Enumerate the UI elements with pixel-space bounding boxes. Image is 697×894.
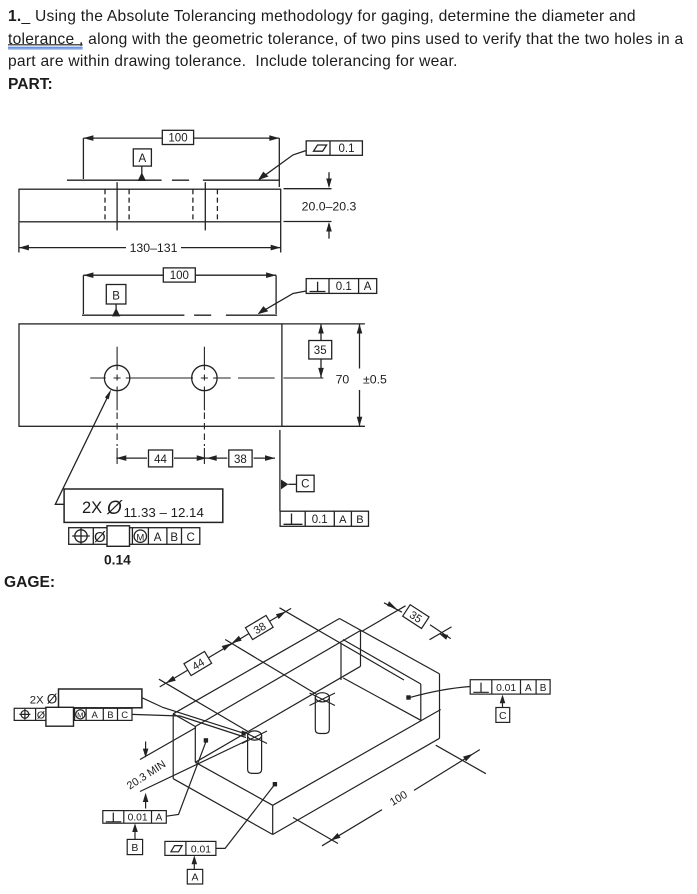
- svg-text:C: C: [186, 532, 194, 544]
- flatness FCF (gage): [165, 785, 275, 856]
- hole 2 circle: [192, 365, 217, 390]
- dimension 100 (view2): [83, 268, 276, 314]
- part front view body outline: [19, 189, 281, 222]
- pin 1: [242, 731, 267, 774]
- position FCF (part): [69, 526, 200, 547]
- svg-text:B: B: [170, 532, 178, 544]
- leader to hole1: [55, 392, 110, 504]
- svg-text:part are within drawing tolera: part are within drawing tolerance. Inclu…: [8, 53, 458, 70]
- svg-text:11.33 – 12.14: 11.33 – 12.14: [124, 505, 204, 520]
- dimension 44 / 38 (iso): [159, 608, 404, 732]
- svg-text:0.01: 0.01: [496, 683, 516, 694]
- svg-text:M: M: [136, 532, 144, 543]
- horizontal centerline: [90, 377, 323, 379]
- dimension 35: [309, 324, 332, 378]
- svg-text:38: 38: [234, 454, 247, 466]
- datum B flag (gage): [127, 823, 142, 854]
- svg-text:B: B: [107, 710, 113, 721]
- dimension 100 (iso): [293, 745, 486, 846]
- svg-text:C: C: [499, 710, 507, 722]
- svg-text:A: A: [154, 532, 162, 544]
- svg-text:B: B: [112, 290, 120, 302]
- gage block wireframe: [173, 619, 441, 835]
- svg-text:130–131: 130–131: [130, 241, 178, 255]
- svg-text:35: 35: [314, 345, 327, 357]
- svg-text:70: 70: [336, 373, 350, 387]
- dimension 35 (iso): [362, 601, 452, 640]
- svg-text:C: C: [121, 710, 128, 721]
- svg-text:B: B: [540, 683, 547, 694]
- svg-text:100: 100: [170, 270, 189, 282]
- perpendicularity FCF 0.01 A B (gage right): [411, 680, 551, 698]
- leader dot on gage left end face: [204, 738, 208, 742]
- datum B flag: [106, 285, 126, 317]
- svg-text:A: A: [339, 514, 347, 526]
- hole size callout box: [64, 489, 223, 522]
- datum B surface line (view2): [82, 314, 277, 316]
- perpendicularity FCF 0.01 A (gage left): [103, 742, 206, 824]
- hole 1 circle: [104, 365, 129, 390]
- leader dot on gage front face: [273, 782, 277, 786]
- svg-text:0.01: 0.01: [128, 812, 148, 823]
- perpendicularity FCF (bottom, A|B): [280, 511, 368, 526]
- svg-text:Ø: Ø: [37, 709, 45, 721]
- svg-text:A: A: [191, 872, 198, 884]
- hole 2 hidden lines (view1): [193, 189, 218, 222]
- svg-text:M: M: [77, 711, 83, 720]
- svg-text:0.14: 0.14: [104, 553, 131, 568]
- svg-text:20.3 MIN: 20.3 MIN: [125, 758, 168, 792]
- svg-text:A: A: [92, 710, 99, 721]
- dimension 130-131: [19, 223, 281, 255]
- dimensions 44 / 38: [116, 450, 275, 467]
- svg-text:B: B: [131, 842, 138, 854]
- datum C flag (gage): [496, 695, 510, 723]
- svg-text:tolerance , along with the geo: tolerance , along with the geometric tol…: [8, 31, 684, 48]
- svg-text:20.0–20.3: 20.0–20.3: [302, 199, 357, 213]
- svg-text:1._ Using the Absolute Toleran: 1._ Using the Absolute Tolerancing metho…: [8, 8, 636, 25]
- svg-text:C: C: [301, 479, 309, 491]
- svg-text:PART:: PART:: [8, 76, 53, 93]
- datum A flag (gage): [187, 855, 202, 884]
- svg-text:0.01: 0.01: [191, 844, 211, 855]
- vertical centerline hole 2: [203, 347, 205, 410]
- right edge extension line down to FCF: [279, 430, 281, 511]
- dimension 70 +/-0.5: [282, 324, 387, 426]
- flatness FCF (view1): [258, 141, 362, 180]
- datum A surface line (view1): [67, 179, 279, 181]
- svg-text:0.1: 0.1: [339, 143, 355, 155]
- svg-text:GAGE:: GAGE:: [4, 574, 55, 591]
- datum A flag: [133, 149, 151, 181]
- dimension 20.0-20.3: [284, 172, 357, 238]
- svg-text:Ø: Ø: [94, 529, 106, 546]
- position FCF (gage): [14, 707, 132, 726]
- dimension 100 (view1): [83, 130, 279, 187]
- svg-text:44: 44: [154, 454, 167, 466]
- svg-text:±0.5: ±0.5: [363, 373, 387, 387]
- vertical centerline hole 1: [116, 347, 118, 410]
- svg-text:0.1: 0.1: [312, 514, 328, 526]
- svg-text:0.1: 0.1: [336, 281, 352, 293]
- datum C flag: [281, 475, 314, 492]
- svg-text:2X: 2X: [82, 499, 102, 517]
- pin 2: [310, 693, 336, 734]
- svg-text:100: 100: [388, 789, 410, 809]
- svg-text:A: A: [156, 812, 163, 823]
- svg-text:A: A: [364, 281, 372, 293]
- leader dot on gage right end face: [406, 695, 410, 699]
- svg-text:A: A: [138, 153, 146, 165]
- hole 1 hidden lines (view1): [105, 189, 129, 222]
- svg-text:100: 100: [168, 133, 187, 145]
- perpendicularity FCF (view2 top): [258, 279, 377, 315]
- svg-text:2X Ø: 2X Ø: [30, 692, 58, 707]
- svg-text:B: B: [356, 514, 363, 526]
- part top view body outline: [19, 324, 282, 426]
- 2X dia callout (gage): [30, 689, 246, 738]
- svg-text:Ø: Ø: [106, 498, 123, 519]
- 20.3 MIN dimension: [125, 728, 248, 809]
- svg-text:A: A: [525, 683, 532, 694]
